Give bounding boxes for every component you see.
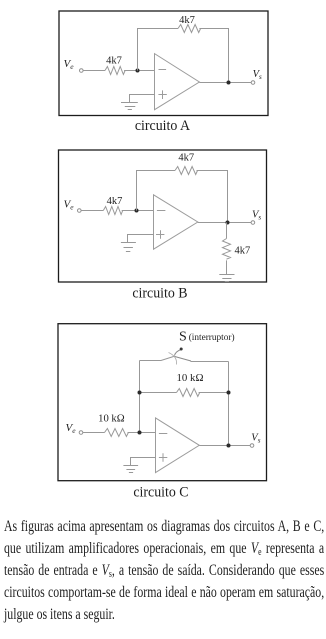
wire input A: [83, 70, 105, 72]
ground B: [121, 243, 136, 252]
wire U2 non-inverting to ground: [128, 235, 154, 243]
wire feedback branch C left: [140, 392, 177, 394]
resistor R-in A: [105, 67, 125, 75]
node junction B (output): [226, 221, 230, 225]
plus sign U3: [159, 453, 167, 461]
wire output A: [199, 82, 251, 84]
wire input B: [81, 210, 103, 212]
svg-text:circuito A: circuito A: [135, 118, 190, 134]
minus sign U2: [157, 210, 166, 212]
svg-text:4k7: 4k7: [106, 56, 122, 67]
op-amp U2 (circuit B): [154, 195, 198, 249]
ground B2 (below load resistor): [219, 275, 234, 282]
svg-text:Vs: Vs: [251, 433, 260, 445]
minus sign U3: [159, 433, 167, 435]
svg-text:4k7: 4k7: [107, 196, 123, 207]
resistor R-f B: [175, 167, 198, 175]
input terminal C: [79, 431, 83, 435]
wire switch branch left: [140, 357, 174, 361]
ground C: [123, 466, 138, 473]
resistor R-in B: [103, 207, 122, 215]
op-amp U1 (circuit A): [155, 54, 200, 110]
switch S blade: [173, 356, 191, 361]
svg-text:Ve: Ve: [64, 198, 75, 211]
wire right rail C: [228, 362, 230, 446]
svg-text:S: S: [179, 330, 187, 345]
svg-text:circuito C: circuito C: [133, 484, 188, 500]
svg-text:Vs: Vs: [252, 210, 261, 222]
node junction C (output): [227, 444, 231, 448]
node junction B (inverting input): [135, 209, 139, 213]
node junction C (feedback right): [227, 391, 231, 395]
svg-text:(interruptor): (interruptor): [189, 332, 235, 343]
svg-text:10 kΩ: 10 kΩ: [98, 413, 125, 425]
resistor R-in C: [105, 429, 129, 437]
wire feedback B up: [137, 171, 176, 211]
ground A: [121, 103, 138, 110]
wire feedback B down: [197, 171, 228, 223]
wire input C: [83, 432, 105, 434]
svg-text:4k7: 4k7: [178, 153, 194, 164]
frame circuit B: [59, 150, 267, 282]
wire B to op-amp inverting input: [122, 210, 154, 212]
input terminal A: [80, 69, 84, 73]
node junction A (output): [227, 81, 231, 85]
wire left rail C: [139, 361, 141, 433]
wire feedback branch C right: [199, 392, 229, 394]
svg-text:10 kΩ: 10 kΩ: [177, 372, 204, 384]
wire U3 non-inverting to ground: [131, 458, 156, 466]
node junction C (feedback left): [138, 391, 142, 395]
svg-text:Ve: Ve: [64, 58, 75, 71]
wire feedback A up: [138, 29, 179, 71]
svg-text:4k7: 4k7: [179, 15, 195, 26]
node junction A (inverting input): [136, 69, 140, 73]
wire A to op-amp inverting input: [124, 70, 154, 72]
output terminal B: [251, 221, 255, 225]
svg-text:Ve: Ve: [66, 422, 77, 435]
output terminal A: [251, 81, 255, 85]
wire B load resistor to ground: [226, 260, 228, 274]
svg-text:circuito B: circuito B: [132, 286, 187, 302]
output terminal C: [250, 444, 254, 448]
resistor R-load B (vertical): [223, 239, 231, 260]
frame circuit C: [58, 324, 267, 481]
svg-text:4k7: 4k7: [235, 246, 251, 257]
resistor R-f A: [178, 25, 201, 33]
switch S arc: [169, 353, 177, 365]
node junction C (inverting input): [138, 431, 142, 435]
input terminal B: [78, 209, 82, 213]
plus sign U2: [156, 230, 164, 238]
switch S lever: [175, 350, 182, 356]
wire output B: [198, 222, 251, 224]
svg-text:Vs: Vs: [253, 69, 262, 81]
wire feedback A down: [199, 29, 228, 83]
wire C to op-amp inverting input: [128, 432, 156, 434]
paragraph text: [4, 516, 324, 626]
wire output C: [199, 445, 250, 447]
wire B output node down to load resistor: [226, 223, 228, 239]
plus sign U1: [158, 90, 166, 99]
minus sign U1: [159, 69, 167, 71]
resistor R-f C: [177, 389, 200, 397]
op-amp U3 (circuit C): [156, 418, 200, 473]
switch S knob dot: [180, 348, 183, 351]
frame circuit A: [59, 11, 268, 116]
wire U1 non-inverting to ground: [130, 95, 155, 103]
wire switch branch right: [191, 361, 229, 363]
